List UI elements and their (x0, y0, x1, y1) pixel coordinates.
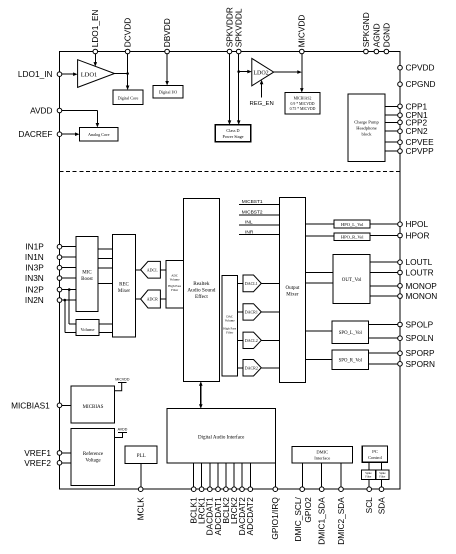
svg-text:Mixer: Mixer (286, 293, 299, 298)
svg-text:DMIC2_SDA: DMIC2_SDA (336, 497, 346, 545)
svg-text:Mixer: Mixer (118, 289, 131, 294)
svg-text:AGND: AGND (371, 23, 381, 47)
svg-text:AVDD: AVDD (118, 428, 128, 432)
svg-text:LOUTL: LOUTL (406, 257, 433, 267)
svg-text:IN3N: IN3N (25, 273, 44, 283)
svg-text:I²C: I²C (372, 449, 378, 454)
svg-text:IN3P: IN3P (25, 263, 44, 273)
svg-text:Digital Core: Digital Core (118, 96, 139, 101)
svg-text:CPVPP: CPVPP (406, 146, 435, 156)
svg-text:MICVDD: MICVDD (115, 378, 130, 382)
svg-text:Interface: Interface (314, 456, 330, 461)
svg-text:0.75 * MICVDD: 0.75 * MICVDD (290, 107, 316, 111)
svg-text:Power Stage: Power Stage (222, 134, 243, 139)
svg-text:Reference: Reference (83, 452, 104, 457)
svg-text:Output: Output (285, 286, 300, 291)
svg-text:ADCDAT2: ADCDAT2 (245, 497, 255, 535)
svg-text:MICBIAS2: MICBIAS2 (294, 97, 312, 101)
svg-text:SPKVDDL: SPKVDDL (234, 8, 244, 47)
svg-text:Realtek: Realtek (193, 281, 210, 287)
svg-text:SPO_R_Vol: SPO_R_Vol (339, 359, 363, 364)
svg-text:HPO_R_Vol: HPO_R_Vol (341, 235, 364, 240)
svg-text:MICBST2: MICBST2 (242, 210, 263, 216)
svg-text:Headphone: Headphone (356, 125, 377, 130)
svg-text:SPOLP: SPOLP (406, 320, 434, 330)
svg-text:LDO1: LDO1 (81, 71, 98, 78)
svg-text:LDO1_IN: LDO1_IN (18, 69, 53, 79)
svg-text:PLL: PLL (137, 454, 146, 459)
svg-text:MICVDD: MICVDD (297, 15, 307, 48)
svg-text:IN2P: IN2P (25, 285, 44, 295)
svg-text:DMIC1_SDA: DMIC1_SDA (317, 497, 327, 545)
svg-text:CPVDD: CPVDD (406, 63, 435, 73)
svg-text:DACL2: DACL2 (245, 338, 258, 343)
svg-text:DMIC_SCL/: DMIC_SCL/ (293, 497, 303, 542)
svg-text:MONON: MONON (406, 291, 438, 301)
svg-text:HPOR: HPOR (406, 231, 430, 241)
svg-text:OUT_Vol: OUT_Vol (342, 278, 362, 283)
svg-text:Volume: Volume (170, 277, 180, 281)
svg-text:MICBIAS1: MICBIAS1 (11, 400, 50, 410)
svg-text:Charge Pump: Charge Pump (354, 119, 379, 124)
svg-text:0.9 * MICVDD: 0.9 * MICVDD (291, 102, 315, 106)
svg-text:Boost: Boost (81, 277, 93, 282)
svg-text:DACR2: DACR2 (245, 365, 258, 370)
svg-text:Digital Audio Interface: Digital Audio Interface (198, 435, 245, 440)
svg-text:Volume: Volume (81, 327, 95, 332)
svg-text:DACR1: DACR1 (245, 310, 258, 315)
svg-text:MIC: MIC (82, 271, 92, 276)
svg-text:REC: REC (119, 283, 129, 288)
svg-text:Voltage: Voltage (85, 459, 101, 464)
svg-text:VREF1: VREF1 (24, 448, 51, 458)
svg-text:REG_EN: REG_EN (249, 101, 273, 107)
svg-text:GPIO1/IRQ: GPIO1/IRQ (270, 497, 280, 540)
svg-text:IN1N: IN1N (25, 252, 44, 262)
svg-text:SPKGND: SPKGND (361, 12, 371, 47)
svg-text:HPO_L_Vol: HPO_L_Vol (341, 222, 364, 227)
svg-text:CPN2: CPN2 (406, 126, 429, 136)
svg-text:Volume: Volume (225, 319, 235, 323)
svg-text:INR: INR (245, 229, 254, 235)
svg-text:LDO1_EN: LDO1_EN (90, 9, 100, 47)
svg-text:DGND: DGND (381, 23, 391, 47)
svg-text:INL: INL (245, 220, 253, 226)
svg-text:block: block (362, 131, 373, 136)
svg-text:Spike: Spike (379, 472, 386, 475)
svg-text:DACL1: DACL1 (245, 281, 258, 286)
svg-text:SPORN: SPORN (406, 359, 436, 369)
svg-text:Spike: Spike (365, 472, 372, 475)
svg-text:Digital I/O: Digital I/O (159, 90, 177, 95)
svg-text:ADCR: ADCR (147, 297, 158, 302)
svg-text:Filter: Filter (379, 475, 385, 478)
svg-text:Effect: Effect (195, 293, 208, 300)
svg-text:SPOLN: SPOLN (406, 333, 434, 343)
svg-text:IN1P: IN1P (25, 242, 44, 252)
svg-text:Analog Core: Analog Core (88, 132, 110, 137)
svg-text:Control: Control (368, 455, 383, 460)
svg-text:HPOL: HPOL (406, 219, 429, 229)
svg-text:ADCL: ADCL (147, 267, 158, 272)
svg-text:Filter: Filter (365, 475, 371, 478)
svg-text:SDA: SDA (376, 497, 386, 515)
svg-text:VREF2: VREF2 (24, 458, 51, 468)
svg-text:DBVDD: DBVDD (162, 18, 172, 47)
svg-text:MICBIAS: MICBIAS (83, 405, 104, 410)
svg-text:MICBST1: MICBST1 (242, 199, 263, 205)
svg-text:MCLK: MCLK (136, 497, 146, 521)
svg-text:Class D: Class D (226, 128, 239, 133)
svg-text:DCVDD: DCVDD (123, 18, 133, 48)
svg-text:GPIO2: GPIO2 (303, 497, 313, 523)
svg-text:Filter: Filter (171, 288, 179, 292)
svg-text:Filter: Filter (226, 331, 234, 335)
svg-text:DACREF: DACREF (18, 129, 52, 139)
svg-text:MONOP: MONOP (406, 281, 438, 291)
svg-text:IN2N: IN2N (25, 295, 44, 305)
svg-text:Audio Sound: Audio Sound (187, 287, 215, 293)
svg-text:DMIC: DMIC (316, 450, 328, 455)
svg-text:AVDD: AVDD (30, 106, 52, 116)
svg-text:CPGND: CPGND (406, 79, 436, 89)
svg-text:LDO2: LDO2 (253, 70, 268, 76)
svg-text:SPO_L_Vol: SPO_L_Vol (339, 331, 363, 336)
svg-text:LOUTR: LOUTR (406, 268, 434, 278)
svg-text:SPORP: SPORP (406, 348, 436, 358)
svg-text:SCL: SCL (364, 497, 374, 514)
